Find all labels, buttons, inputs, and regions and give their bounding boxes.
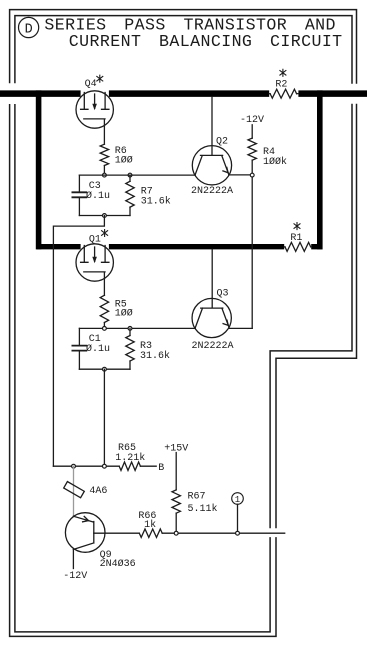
svg-text:D: D <box>25 22 33 37</box>
junction node fuse top <box>72 464 76 468</box>
transistor Q1 <box>76 230 113 296</box>
wire gate node down to balance row <box>103 369 105 466</box>
resistor R7 <box>126 175 171 215</box>
capacitor C1 <box>72 328 110 369</box>
svg-text:Q4: Q4 <box>85 79 97 90</box>
svg-text:31.6k: 31.6k <box>141 196 171 208</box>
svg-text:1ØØ: 1ØØ <box>115 308 133 320</box>
wire C1 loop bottom <box>79 368 130 370</box>
junction node under terminal 1 <box>236 531 240 535</box>
svg-text:1k: 1k <box>144 519 156 531</box>
junction node R65 left <box>103 464 107 468</box>
wire Q9 base to R66 <box>94 532 140 534</box>
wire Q2 emitter to node <box>229 174 252 176</box>
svg-text:R67: R67 <box>188 492 206 503</box>
wire R4 node down to Q3 emitter <box>251 177 253 328</box>
wire gate node jog down-left <box>53 216 104 467</box>
wire Q9 collector to -12V <box>72 549 74 568</box>
svg-text:Q3: Q3 <box>217 288 229 299</box>
svg-text:1.21k: 1.21k <box>115 452 145 464</box>
svg-text:1ØØ: 1ØØ <box>115 155 133 167</box>
svg-text:Ø.1u: Ø.1u <box>86 343 110 355</box>
junction node Q2 emitter / R4 <box>250 173 254 177</box>
svg-text:CURRENT BALANCING CIRCUIT: CURRENT BALANCING CIRCUIT <box>69 32 343 51</box>
junction node at R6 bottom <box>103 173 107 177</box>
resistor R1 <box>284 223 311 252</box>
svg-text:1: 1 <box>235 495 240 505</box>
junction node at R7 top <box>128 173 132 177</box>
junction node R67 bottom <box>174 531 178 535</box>
svg-text:31.6k: 31.6k <box>140 350 170 362</box>
transistor Q3 <box>192 249 234 352</box>
svg-text:Q2: Q2 <box>216 136 228 147</box>
transistor Q2 <box>191 97 233 197</box>
resistor R4 <box>248 125 287 175</box>
resistor R2 <box>269 69 298 98</box>
junction node at R5 bottom <box>103 327 107 331</box>
wire node row to Q2 collector <box>79 174 195 176</box>
svg-text:-12V: -12V <box>63 571 87 582</box>
svg-text:4A6: 4A6 <box>89 486 107 497</box>
junction node at C1 loop bottom <box>103 367 107 371</box>
svg-text:2N2222A: 2N2222A <box>192 341 234 352</box>
resistor R6 <box>100 144 133 175</box>
wire heavy top output bus <box>0 90 367 97</box>
svg-text:R2: R2 <box>275 80 287 91</box>
svg-text:Ø.1u: Ø.1u <box>86 190 110 202</box>
svg-text:R1: R1 <box>290 233 302 244</box>
junction node at R3 top <box>128 327 132 331</box>
terminal circle 1 <box>232 493 244 532</box>
resistor R65 <box>115 443 156 470</box>
wire C3 loop bottom <box>79 215 130 217</box>
title text <box>44 16 342 51</box>
svg-text:Q1: Q1 <box>89 234 101 245</box>
wire R66 to off-page <box>162 532 285 534</box>
resistor R3 <box>126 328 170 369</box>
wire fuse to Q9 emitter (gray) <box>73 466 75 516</box>
svg-text:1ØØk: 1ØØk <box>263 156 287 168</box>
wire balance row <box>53 465 119 467</box>
junction node at C3 loop bottom <box>103 214 107 218</box>
resistor R5 <box>100 295 133 328</box>
revision letter circle D <box>19 17 39 37</box>
transistor Q4 <box>76 75 113 144</box>
wire heavy right vertical bus <box>317 90 323 249</box>
svg-text:2N4Ø36: 2N4Ø36 <box>100 558 136 570</box>
wire Q3 emitter to riser <box>229 327 252 329</box>
svg-text:B: B <box>158 463 164 474</box>
wire Q3 collector row <box>79 327 195 329</box>
resistor R67 <box>172 453 218 534</box>
capacitor C3 <box>72 175 110 215</box>
svg-text:5.11k: 5.11k <box>188 503 218 515</box>
svg-text:2N2222A: 2N2222A <box>191 186 233 197</box>
transistor Q9 <box>65 513 135 570</box>
resistor R66 <box>138 511 162 537</box>
fuse 4A6 <box>64 482 108 498</box>
wire heavy left vertical bus <box>36 90 42 249</box>
wire heavy second bus <box>37 244 323 249</box>
